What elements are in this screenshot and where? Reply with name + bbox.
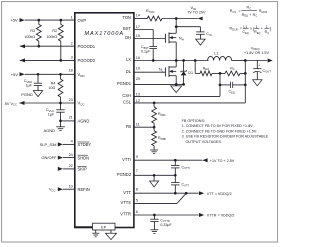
junction +5V/R3 [37, 19, 40, 22]
svg-text:9: 9 [136, 155, 138, 159]
svg-text:100kΩ: 100kΩ [24, 35, 35, 39]
svg-text:8: 8 [136, 187, 138, 191]
transistor NH label [179, 37, 184, 42]
node 5V VCC label [5, 102, 17, 107]
svg-text:1: 1 [266, 25, 268, 29]
wire DL pin 19 to NL gate [134, 71, 166, 73]
svg-text:VTT: VTT [123, 190, 131, 195]
capacitor CVTTR labels [160, 218, 172, 227]
transistor NL label [159, 67, 164, 72]
svg-text:PGOOD2: PGOOD2 [78, 58, 96, 63]
wire PGOOD1 pin 2 [20, 45, 75, 47]
svg-text:PGND: PGND [21, 92, 33, 97]
pin number 10 (left) [69, 184, 73, 188]
IC U1 part number label MAX17000A [85, 31, 124, 37]
terminal arrow PGOOD2 [20, 58, 25, 62]
svg-text:7: 7 [136, 169, 138, 173]
ground AGND label [44, 128, 56, 133]
wire NH source to LX [175, 42, 177, 61]
resistor RFBB label [158, 136, 166, 141]
junction CBST/LX [152, 59, 155, 62]
svg-text:+5V: +5V [11, 18, 19, 23]
wire VCC pin 23 [19, 102, 75, 104]
node VDDQ label [244, 46, 269, 55]
ground under CVTTR [150, 230, 158, 234]
svg-text:L1: L1 [243, 25, 247, 29]
terminal arrow REFIN [58, 187, 63, 191]
capacitor CVCC labels [46, 108, 55, 116]
svg-text:11: 11 [136, 122, 140, 126]
ground under RFBB [150, 150, 158, 154]
wire VTTI pin 9 row [134, 159, 203, 161]
ground PGND label [21, 92, 33, 97]
wire PGND1 pin 20 row [134, 83, 184, 85]
svg-text:SLP_S3#: SLP_S3# [40, 142, 58, 147]
pin number 24 (left) [69, 153, 73, 157]
svg-text:R4: R4 [51, 82, 56, 86]
svg-text:+: + [249, 13, 251, 17]
pin number 9 (right) [136, 155, 138, 159]
capacitor CIN [196, 32, 204, 39]
capacitor CEQ [231, 82, 246, 88]
capacitor COUT label [263, 69, 272, 74]
svg-text:VTTI: VTTI [122, 157, 131, 162]
wire REQ to junction [212, 72, 220, 74]
svg-text:2: 2 [71, 41, 73, 45]
pin name PGND1 [117, 81, 132, 86]
capacitor CVDD [34, 74, 42, 90]
svg-text:100kΩ: 100kΩ [46, 35, 57, 39]
junction VDDQ/RC [244, 72, 247, 75]
junction PGND1/NL source [175, 83, 178, 86]
terminal arrow VDDQ output [268, 59, 273, 63]
svg-text:4: 4 [71, 140, 73, 144]
junction VDDQ node [244, 59, 247, 62]
terminal arrow SLP_S3# [58, 142, 63, 146]
svg-text:SHDN: SHDN [78, 155, 90, 160]
svg-text:EP: EP [101, 226, 107, 230]
pin name REFIN [78, 187, 90, 192]
junction VTT/VTTS [185, 192, 188, 195]
wire VTTS pin 5 row [134, 193, 186, 203]
wire SHDN pin 24 [63, 157, 75, 159]
pin number 4 (left) [71, 140, 73, 144]
node VIN label [187, 5, 206, 14]
svg-text:21: 21 [69, 115, 73, 119]
wire TON pin 14 to RTON [134, 18, 147, 20]
pin number 6 (right) [136, 210, 138, 214]
pin number 16 (right) [136, 56, 140, 60]
wire BST pin 17 [134, 30, 153, 47]
svg-text:17: 17 [136, 25, 140, 29]
svg-text:CSL: CSL [123, 100, 132, 105]
wire DH pin 15 to NH gate [134, 38, 166, 40]
wire chip bottom to EP [75, 226, 93, 228]
wire FB pin 11 row [134, 126, 154, 128]
pin number 22 (left) [69, 164, 73, 168]
ground EP power ground [106, 230, 117, 240]
pin number 18 (left) [69, 69, 73, 73]
svg-text:19: 19 [136, 67, 140, 71]
junction VIN/CIN branch [175, 25, 178, 28]
capacitor CVTTR [150, 215, 158, 230]
svg-text:SKIP: SKIP [78, 167, 88, 172]
pin name SHDN [78, 155, 90, 160]
pin name DL [126, 69, 132, 74]
note FB options text [182, 119, 269, 144]
capacitor CBST [149, 46, 157, 60]
svg-text:VTT = VDDQ/2: VTT = VDDQ/2 [207, 192, 232, 196]
node SLP_S3# label [40, 142, 58, 147]
ground under CIN [196, 39, 206, 45]
node VTTR label [207, 214, 235, 218]
svg-text:+: + [258, 64, 260, 68]
capacitor CIN label [206, 32, 211, 37]
pin name CSL [123, 100, 132, 105]
node +5V (OVP pull-up rail) label [11, 18, 19, 23]
svg-text:TON: TON [122, 15, 131, 20]
resistor RFBB body [152, 127, 157, 150]
svg-text:REFIN: REFIN [78, 187, 90, 192]
terminal arrow VIN [198, 17, 203, 21]
junction VDD/R4 [59, 73, 62, 76]
wire RTON to VIN node [162, 18, 198, 20]
svg-text:1: 1 [71, 15, 73, 19]
pin name DH [125, 35, 131, 40]
resistor R4 labels [48, 82, 55, 91]
ground under COUT [253, 80, 262, 86]
pin number 13 (right) [136, 92, 140, 96]
pin name STDBY [78, 142, 92, 147]
junction REQ/RC [219, 72, 222, 75]
pin name VTT [123, 190, 131, 195]
svg-text:3. USE FB RESISTOR-DIVIDER FOR: 3. USE FB RESISTOR-DIVIDER FOR ADJUSTABL… [182, 135, 269, 139]
svg-text:2. CONNECT FB TO GND FOR FIXED: 2. CONNECT FB TO GND FOR FIXED +1.5V. [182, 129, 257, 133]
resistor RFBA body [152, 103, 157, 127]
pin name VCC [78, 101, 85, 107]
svg-text:13: 13 [136, 92, 140, 96]
svg-text:22: 22 [69, 164, 73, 168]
resistor R2 body [58, 20, 63, 60]
junction R2/PGOOD2 [59, 59, 62, 62]
junction VTT/CVTT [174, 192, 177, 195]
terminal arrow ON/OFF [58, 156, 63, 160]
svg-text:23: 23 [69, 98, 73, 102]
pin number 2 (left) [71, 41, 73, 45]
resistor REQ body [200, 71, 212, 76]
terminal arrow VTTR output [199, 213, 204, 217]
wire RC to VDDQ vertical [240, 72, 245, 74]
wire +5V rail to OVP pin 1 [25, 19, 75, 21]
junction VIN node [175, 17, 178, 20]
inductor L1 label [214, 51, 218, 55]
svg-text:FB: FB [126, 124, 132, 129]
svg-text:BST: BST [123, 26, 131, 31]
node +5V (VDD) label [11, 72, 19, 77]
capacitor CVDD labels [24, 79, 33, 87]
pin name SKIP [78, 167, 88, 172]
pin number 23 (left) [69, 98, 73, 102]
pin number 8 (right) [136, 187, 138, 191]
svg-text:LX: LX [126, 57, 131, 62]
resistor R3 body [36, 20, 41, 46]
junction VCC/R4/CVCC [59, 102, 62, 105]
pin number 7 (right) [136, 169, 138, 173]
wire VTTR pin 6 row [134, 214, 199, 216]
inductor L1 [208, 56, 232, 60]
pin name VDD [78, 72, 85, 78]
ground AGND symbol [56, 121, 65, 131]
svg-text:PGND1: PGND1 [117, 81, 132, 86]
ground PGND (under CVDD) [33, 91, 43, 97]
node VCC (REFIN) label [49, 188, 55, 193]
wire VIN down to drain/CIN tee [175, 19, 177, 27]
svg-text:DH: DH [125, 35, 131, 40]
capacitor CEQ label [229, 90, 235, 95]
formula RDCR [230, 25, 272, 35]
pin number 1 (left) [71, 15, 73, 19]
svg-text:AGND: AGND [78, 119, 90, 124]
wire VDDQ node to output arrow [245, 60, 267, 62]
junction R3/PGOOD1 [37, 45, 40, 48]
wire SKIP pin 22 [63, 168, 75, 170]
svg-text:14: 14 [136, 14, 140, 18]
pin number 12 (right) [136, 99, 140, 103]
wire VDDQ vertical [244, 61, 246, 103]
svg-text:D1: D1 [188, 71, 193, 75]
pin number 3 (left) [71, 56, 73, 60]
junction FB/RFBA/RFBB [153, 126, 156, 129]
pin name PGOOD2 [78, 58, 96, 63]
wire CSL pin 12 row [134, 102, 245, 104]
diode D1 label [188, 71, 193, 75]
terminal arrow PGOOD1 [20, 44, 25, 48]
pin name VTTR [120, 212, 131, 217]
svg-text:OUTPUT VOLTAGES.: OUTPUT VOLTAGES. [186, 140, 222, 144]
svg-text:VTTS: VTTS [121, 200, 132, 205]
svg-text:L1: L1 [214, 51, 218, 55]
resistor R4 body [58, 74, 63, 103]
wire STDBY pin 4 [63, 143, 75, 145]
pin number 17 (right) [136, 25, 140, 29]
svg-text:PGOOD1: PGOOD1 [78, 44, 96, 49]
svg-text:1µF: 1µF [48, 113, 55, 117]
pin name AGND [78, 119, 90, 124]
junction LX/D1 [182, 59, 185, 62]
pin name VTTS [121, 200, 132, 205]
wire REFIN pin 10 [63, 188, 75, 190]
resistor RC label [230, 66, 235, 71]
pin name PGND2 [117, 172, 132, 177]
pin number 20 (right) [136, 77, 140, 81]
pin name LX [126, 57, 131, 62]
wire LX pin 16 row [134, 60, 209, 62]
diode D1 schottky [181, 61, 187, 85]
transistor NH [165, 32, 176, 43]
svg-text:+1.8V OR 1.5V: +1.8V OR 1.5V [244, 51, 269, 55]
ground EP signal ground [92, 230, 99, 237]
svg-text:MAX17000A: MAX17000A [85, 31, 124, 37]
node VTT label [207, 192, 232, 196]
pin number 19 (right) [136, 67, 140, 71]
capacitor CVTT label [182, 183, 190, 188]
pin number 21 (left) [69, 115, 73, 119]
junction PGND2/gnd [153, 174, 156, 177]
junction LX/RC branch [194, 59, 197, 62]
svg-text:FB OPTIONS:: FB OPTIONS: [182, 119, 205, 123]
pin name CSH [122, 93, 131, 98]
svg-text:0.33µF: 0.33µF [160, 223, 172, 227]
junction VTTR/CVTTR [153, 214, 156, 217]
exposed pad EP box [93, 223, 116, 230]
svg-text:5: 5 [136, 198, 138, 202]
pin name TON [122, 15, 131, 20]
capacitor CVTTI [171, 160, 179, 175]
wire NL drain to LX [175, 61, 177, 68]
wire PGOOD2 pin 3 [20, 59, 75, 61]
svg-text:12: 12 [136, 99, 140, 103]
junction PGND1/D1 [182, 83, 185, 86]
pin name BST [123, 26, 131, 31]
resistor R2 labels [46, 29, 57, 39]
svg-text:+5V: +5V [11, 72, 19, 77]
ground under NL source [171, 84, 182, 92]
pin name FB [126, 124, 132, 129]
formula RCS [230, 6, 267, 18]
svg-text:16: 16 [136, 56, 140, 60]
wire AGND pin 21 [61, 120, 76, 122]
wire NL source to PGND1 [175, 76, 177, 85]
pin number 11 (right) [136, 122, 140, 126]
junction CSL/RFBA [153, 102, 156, 105]
svg-text:+1V TO + 2.5V: +1V TO + 2.5V [210, 159, 235, 163]
wire L1 to VDDQ node [232, 60, 246, 62]
wire PGND2 pin 7 row [134, 174, 175, 176]
wire CSH node vertical [219, 73, 221, 96]
junction VDD/CVDD [37, 73, 40, 76]
IC U1 MAX17000A body [75, 13, 134, 228]
junction PGND2/caps [174, 174, 177, 177]
pin number 15 (right) [136, 34, 140, 38]
pin name PGOOD1 [78, 44, 96, 49]
wire +5V to VDD pin 18 [25, 73, 75, 75]
junction AGND/CVCC [59, 120, 62, 123]
resistor RFBA label [158, 112, 166, 117]
resistor REQ label [203, 66, 209, 71]
node ON/OFF label [41, 155, 57, 160]
svg-text:1µF: 1µF [26, 84, 33, 88]
capacitor CVTT [171, 175, 179, 193]
capacitor CBST labels [141, 45, 151, 54]
resistor RTON body [147, 16, 162, 21]
junction CEQ/VDDQ vertical [244, 84, 247, 87]
svg-text:AGND: AGND [44, 128, 56, 133]
svg-text:VTTR = VDDQ/2: VTTR = VDDQ/2 [207, 214, 235, 218]
wire VTT pin 8 row [134, 192, 199, 194]
node VTTI label [210, 159, 235, 163]
junction +5V/R2 [59, 19, 62, 22]
capacitor CVTTI label [182, 165, 191, 170]
wire VIN to NH drain [175, 27, 177, 34]
capacitor COUT [253, 61, 261, 80]
resistor RC body [225, 71, 240, 76]
svg-text:1. CONNECT FB TO 5V FOR FIXED: 1. CONNECT FB TO 5V FOR FIXED +1.8V. [182, 124, 254, 128]
svg-text:OVP: OVP [78, 18, 87, 23]
transistor NL [165, 66, 176, 77]
junction LX/NH-NL [175, 59, 178, 62]
svg-text:+: + [261, 27, 263, 31]
resistor R3 labels [24, 29, 35, 39]
svg-text:6: 6 [136, 210, 138, 214]
wire CEQ row [220, 84, 231, 86]
junction CEQ tap [219, 84, 222, 87]
terminal arrow VTT output [199, 191, 204, 195]
svg-text:DL: DL [126, 69, 132, 74]
svg-text:VTTR: VTTR [120, 212, 131, 217]
pin name VTTI [122, 157, 131, 162]
terminal arrow VTTI input [202, 158, 207, 162]
capacitor CVCC [56, 103, 64, 121]
svg-text:=: = [239, 9, 241, 13]
svg-text:PGND2: PGND2 [117, 172, 132, 177]
junction VTTI/CVTTI [174, 159, 177, 162]
svg-text:15: 15 [136, 34, 140, 38]
wire junction to RC [220, 72, 225, 74]
svg-text:10Ω: 10Ω [48, 86, 55, 90]
terminal arrow SKIP [58, 167, 63, 171]
svg-text:CSH: CSH [122, 93, 131, 98]
ground under PGND2 [150, 175, 159, 187]
terminal arrow +5V VDD [20, 72, 25, 76]
pin name OVP [78, 18, 87, 23]
svg-text:1: 1 [256, 25, 258, 29]
svg-text:18: 18 [69, 69, 73, 73]
wire CSH pin 13 row [134, 95, 220, 97]
svg-text:3: 3 [71, 56, 73, 60]
svg-text:STDBY: STDBY [78, 142, 92, 147]
wire LX branch down to REQ [195, 61, 200, 74]
svg-text:7V TO 20V: 7V TO 20V [187, 10, 206, 14]
svg-text:24: 24 [69, 153, 73, 157]
pin number 14 (right) [136, 14, 140, 18]
terminal arrow 5V VCC [19, 101, 24, 105]
resistor RTON label [146, 9, 154, 14]
svg-text:R2: R2 [52, 29, 57, 33]
wire CIN branch [176, 27, 200, 32]
svg-text:ON/OFF: ON/OFF [41, 155, 57, 160]
svg-text:R3: R3 [30, 29, 35, 33]
terminal arrow +5V [20, 18, 25, 22]
svg-text:10: 10 [69, 184, 73, 188]
svg-text:20: 20 [136, 77, 140, 81]
pin number 5 (right) [136, 198, 138, 202]
svg-text:0.1µF: 0.1µF [141, 50, 151, 54]
